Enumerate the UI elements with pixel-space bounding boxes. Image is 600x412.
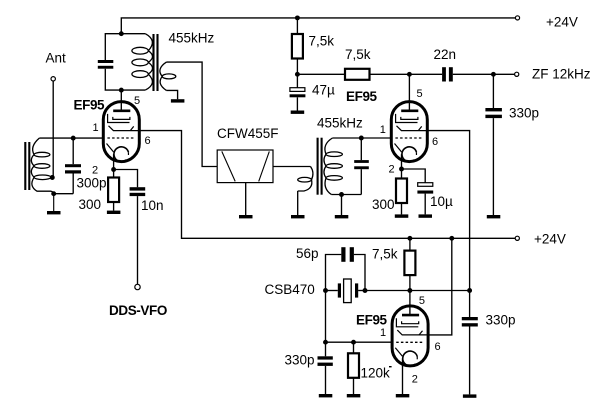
tube V2 EF95 (391, 102, 427, 162)
tank1 capacitor (98, 60, 114, 69)
wire V3 anode (409, 291, 411, 316)
capacitor 56p (341, 247, 354, 262)
wire grid line V2 (332, 137, 391, 139)
ground tank2 (335, 215, 349, 218)
svg-text:5: 5 (417, 88, 423, 100)
svg-text:7,5k: 7,5k (345, 47, 371, 62)
tube V1 EF95 (103, 102, 139, 162)
wire tank1 to tube V1 anode (120, 90, 122, 111)
wire 47u to ground (296, 97, 298, 110)
label 120k tick (389, 366, 392, 367)
node crystal left (323, 288, 328, 293)
tank2 coil 455kHz (324, 138, 342, 195)
wire anode V2 (408, 74, 410, 111)
svg-text:1: 1 (93, 122, 99, 134)
node tank2 bottom (339, 192, 344, 197)
ground cathode V3 (396, 394, 410, 397)
capacitor 10n (130, 187, 146, 196)
node 120k (351, 340, 356, 345)
svg-text:330p: 330p (486, 313, 516, 328)
ground R5 (395, 214, 409, 217)
terminal ZF (515, 72, 519, 76)
wire R1 7,5k top (296, 18, 298, 34)
svg-text:7,5k: 7,5k (309, 34, 335, 49)
antenna coil L1 (31, 138, 53, 194)
wire V1 screen to +24V rail 2 (139, 131, 515, 239)
node crystal right (363, 288, 368, 293)
wire tank1 frame (105, 34, 145, 60)
crystal CSB470 (338, 283, 358, 297)
resistor R6 120k (348, 353, 359, 378)
transformer2 core (318, 138, 322, 195)
ground filter (239, 215, 253, 218)
svg-text:2: 2 (389, 163, 395, 175)
capacitor 330p top (485, 108, 502, 118)
wire grid line V3 (326, 341, 393, 343)
capacitor 330p grid (318, 356, 333, 366)
svg-text:300: 300 (372, 197, 395, 212)
tank1 coil 455kHz primary (132, 34, 153, 90)
wire tank2 cap top (360, 138, 362, 160)
ground 10u (419, 214, 433, 217)
ground 330p grid (319, 394, 333, 397)
wire 56p left branch (326, 255, 342, 291)
wire cathode V2 (401, 154, 403, 178)
node osc 330p (467, 288, 472, 293)
wire R4 to crystal line (409, 275, 411, 290)
wire cathode V1 to R 300 (113, 154, 115, 177)
wire 300p cap branch (72, 138, 74, 164)
wire 22n to ZF terminal (453, 73, 515, 75)
wire coupling coil ground (297, 191, 299, 215)
capacitor 47u electrolytic (290, 88, 305, 92)
terminal Ant (51, 77, 55, 81)
node tank1 bottom (119, 88, 124, 93)
wire 330p top branch (492, 74, 494, 108)
svg-text:10µ: 10µ (430, 194, 453, 209)
node grid V1 (71, 136, 76, 141)
transformer1 core (154, 34, 158, 91)
wire crystal node down to grid V3 (325, 291, 327, 343)
ground coupling coil (291, 215, 305, 218)
wire sec1 bottom to ground (166, 90, 177, 99)
svg-text:6: 6 (432, 136, 438, 148)
ground 120k (347, 394, 361, 397)
node rail R1 (295, 15, 300, 20)
svg-text:6: 6 (435, 341, 441, 353)
node rail2 screen V3 (449, 236, 454, 241)
ground R3 300 (107, 211, 121, 214)
svg-text:300: 300 (79, 197, 102, 212)
node grid V3 (323, 340, 328, 345)
tube V3 EF95 (392, 306, 428, 366)
wire 56p right branch (354, 255, 365, 291)
svg-text:1: 1 (380, 327, 386, 339)
wire V3 screen to +24V (428, 238, 452, 335)
node ZF out (491, 72, 496, 77)
node R1 47u (295, 72, 300, 77)
svg-text:5: 5 (134, 95, 140, 107)
ground antenna coil (53, 194, 55, 211)
resistor R4 7,5k (404, 251, 415, 276)
node tank1 top (119, 31, 124, 36)
tank2 capacitor (354, 160, 369, 169)
terminal +24V top (515, 16, 519, 20)
node cathode V1 (111, 167, 116, 172)
svg-text:455kHz: 455kHz (317, 116, 363, 131)
resistor R5 300 (396, 179, 407, 204)
svg-text:ZF 12kHz: ZF 12kHz (532, 67, 591, 82)
coupling coil filter out (298, 167, 313, 192)
svg-text:455kHz: 455kHz (169, 31, 215, 46)
wire cathode V3 to ground (402, 359, 404, 395)
wire +24V rail top (121, 18, 515, 34)
wire filter bottom to ground (245, 183, 247, 215)
wire node to R2 7,5k (297, 73, 345, 75)
svg-text:330p: 330p (509, 106, 539, 121)
wire antenna lead (52, 81, 54, 176)
wire R1 7,5k bottom node (296, 59, 298, 88)
svg-text:EF95: EF95 (356, 312, 388, 327)
resistor R1 7,5k (292, 34, 303, 59)
wire tank2 ground (341, 195, 343, 216)
resistor R2 7,5k (345, 69, 370, 80)
svg-text:EF95: EF95 (346, 89, 378, 104)
svg-text:CFW455F: CFW455F (217, 126, 279, 141)
ground 47u (291, 111, 305, 114)
wire tank2 cap bottom (360, 169, 362, 194)
wire 330p left branch (325, 342, 327, 356)
capacitor 330p osc (462, 317, 478, 327)
svg-text:56p: 56p (296, 246, 319, 261)
node grid V2 (359, 136, 364, 141)
wire crystal line to node (365, 290, 470, 292)
svg-text:+24V: +24V (534, 231, 566, 246)
wire 10n to DDS-VFO (137, 196, 139, 284)
wire 120k branch (353, 342, 355, 353)
capacitor 22n (442, 67, 453, 81)
node rail2 R4 (407, 236, 412, 241)
svg-text:DDS-VFO: DDS-VFO (109, 303, 167, 318)
wire R2 to 22n (370, 73, 443, 75)
wire R4 7,5k to rail (409, 238, 411, 250)
svg-text:6: 6 (145, 135, 151, 147)
svg-text:1: 1 (380, 124, 386, 136)
wire filter out (273, 166, 311, 168)
wire 10n branch (114, 170, 138, 188)
svg-text:47µ: 47µ (312, 83, 335, 98)
antenna coil core (25, 142, 29, 190)
capacitor 300p input (65, 164, 81, 173)
node cathode V2 (399, 167, 404, 172)
svg-text:2: 2 (92, 164, 98, 176)
svg-text:+24V: +24V (546, 15, 578, 30)
wire 10u branch (402, 169, 426, 183)
wire crystal node to 330p (469, 291, 471, 318)
terminal DDS-VFO (135, 284, 140, 289)
wire tank2 bottom (331, 194, 361, 196)
resistor R3 300 (108, 178, 119, 203)
svg-text:CSB470: CSB470 (265, 282, 315, 297)
wire V2 screen down to crystal node (427, 131, 469, 291)
svg-text:120k: 120k (361, 365, 391, 380)
node anode V3 (407, 288, 412, 293)
ceramic filter CFW455F (217, 150, 273, 183)
terminal +24V rail2 (515, 236, 519, 240)
svg-text:Ant: Ant (46, 51, 67, 66)
node coil bottom (51, 191, 56, 196)
ground 330p osc (463, 394, 477, 397)
svg-text:10n: 10n (141, 198, 164, 213)
wire crystal left (326, 290, 338, 292)
capacitor 10u electrolytic (418, 183, 433, 187)
wire 330p bottom to ground (469, 327, 471, 395)
svg-text:330p: 330p (285, 353, 315, 368)
wire 455kHz sec1 to filter (166, 62, 217, 166)
node V2 anode (407, 72, 412, 77)
node antenna tap (50, 175, 55, 180)
svg-text:EF95: EF95 (74, 98, 106, 113)
ground transformer1 secondary (171, 99, 185, 102)
svg-text:2: 2 (412, 374, 418, 386)
svg-text:5: 5 (419, 295, 425, 307)
svg-text:7,5k: 7,5k (372, 247, 398, 262)
wire crystal right (358, 290, 365, 292)
svg-text:22n: 22n (434, 47, 457, 62)
wire grid line V1 (39, 137, 104, 139)
transformer1 secondary coil (160, 62, 176, 90)
ground 330p top (487, 215, 501, 218)
svg-text:300p: 300p (77, 176, 107, 191)
